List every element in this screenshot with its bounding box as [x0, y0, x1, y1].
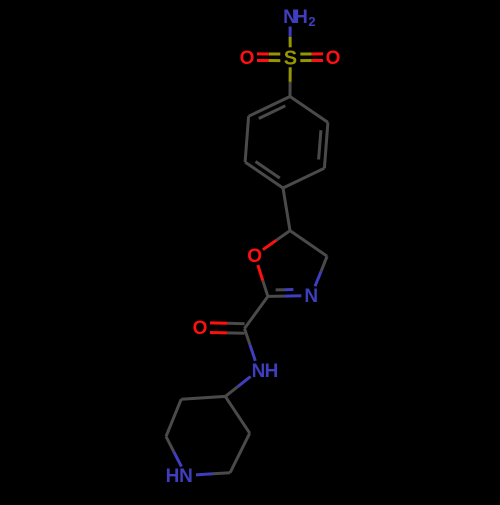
svg-text:H: H: [294, 7, 308, 28]
svg-text:O: O: [326, 48, 341, 69]
svg-text:O: O: [240, 48, 255, 69]
svg-text:N: N: [304, 286, 318, 307]
svg-text:H: H: [166, 466, 180, 487]
svg-text:H: H: [265, 361, 279, 382]
svg-text:S: S: [284, 47, 297, 69]
svg-text:O: O: [247, 246, 262, 267]
svg-text:N: N: [252, 361, 266, 382]
svg-text:2: 2: [308, 14, 315, 29]
svg-text:O: O: [193, 318, 208, 339]
svg-text:N: N: [179, 466, 193, 487]
